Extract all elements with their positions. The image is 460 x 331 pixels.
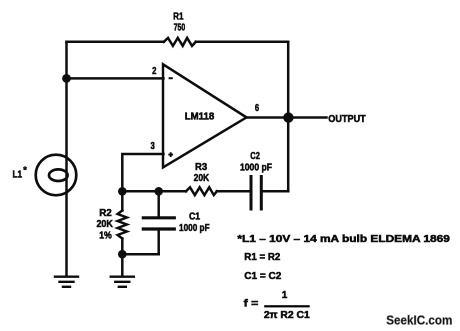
svg-text:f =: f = xyxy=(244,299,259,310)
wire top-right horizontal xyxy=(196,41,288,44)
wire C2 to corner xyxy=(263,190,289,193)
svg-text:C1 = C2: C1 = C2 xyxy=(244,271,281,282)
wire pin 3 xyxy=(122,154,163,191)
svg-text:R3: R3 xyxy=(195,162,208,173)
svg-text:*L1 – 10V – 14 mA bulb ELDEMA: *L1 – 10V – 14 mA bulb ELDEMA 1869 xyxy=(237,234,450,245)
svg-text:1000 pF: 1000 pF xyxy=(179,223,210,234)
wire middle left xyxy=(122,190,186,193)
wire output xyxy=(247,116,327,119)
svg-text:1: 1 xyxy=(282,290,288,301)
fraction bar xyxy=(264,305,310,307)
node junction R2 top xyxy=(118,187,127,196)
resistor R2 xyxy=(118,191,127,254)
plus input sign xyxy=(168,152,173,157)
ground (R2) xyxy=(111,277,134,287)
svg-text:2π R2 C1: 2π R2 C1 xyxy=(264,310,310,321)
lamp L1 xyxy=(36,155,77,196)
wire R2 node to ground xyxy=(121,254,124,275)
ground (L1) xyxy=(55,277,78,287)
svg-text:C2: C2 xyxy=(250,151,260,162)
svg-text:C1: C1 xyxy=(189,212,200,223)
svg-text:*: * xyxy=(23,165,27,175)
minus input sign xyxy=(169,77,173,79)
wire pin 2 xyxy=(67,77,164,80)
svg-text:1000 pF: 1000 pF xyxy=(240,162,272,173)
svg-text:2: 2 xyxy=(152,66,157,77)
node junction output xyxy=(283,112,293,122)
capacitor C1 xyxy=(143,191,174,254)
op-amp U1 LM118 xyxy=(163,64,247,167)
wire top-left horizontal xyxy=(67,41,164,44)
capacitor C2 xyxy=(251,177,261,210)
resistor R1 xyxy=(164,38,196,46)
svg-text:20K: 20K xyxy=(96,219,113,230)
wire left vertical xyxy=(65,42,68,276)
svg-text:SeekIC.com: SeekIC.com xyxy=(386,313,452,327)
node junction R2 bottom xyxy=(118,250,127,259)
node junction C1 top xyxy=(154,187,163,196)
svg-text:L1: L1 xyxy=(13,169,23,180)
svg-text:1%: 1% xyxy=(99,231,112,242)
svg-text:R1: R1 xyxy=(173,12,184,23)
svg-text:OUTPUT: OUTPUT xyxy=(328,114,365,125)
resistor R3 xyxy=(186,187,217,195)
svg-text:R2: R2 xyxy=(99,208,112,219)
node junction at pin 2 xyxy=(62,74,71,83)
svg-text:3: 3 xyxy=(150,141,155,152)
wire bottom between R2 and C1 xyxy=(122,253,158,256)
svg-text:750: 750 xyxy=(174,22,186,33)
svg-text:R1 = R2: R1 = R2 xyxy=(244,252,280,263)
svg-text:LM118: LM118 xyxy=(185,111,215,122)
wire right vertical xyxy=(287,42,290,192)
svg-text:20K: 20K xyxy=(194,173,210,184)
svg-text:6: 6 xyxy=(255,103,260,114)
wire R3 to C2 xyxy=(217,190,250,193)
